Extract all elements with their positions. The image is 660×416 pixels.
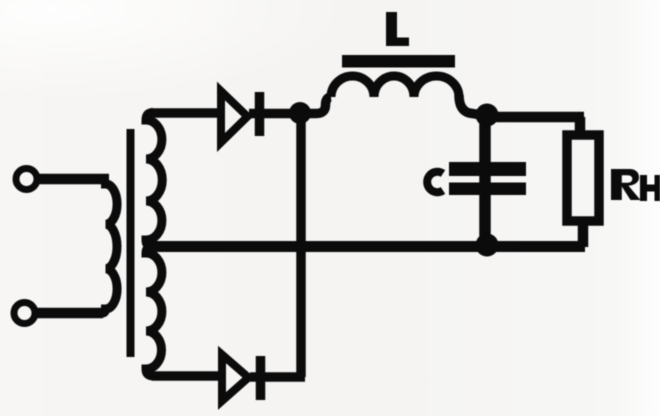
wire (578, 221, 589, 247)
wire (152, 371, 220, 381)
wire (487, 112, 584, 123)
label C (427, 172, 443, 192)
inductor core bar (342, 55, 455, 68)
wire (575, 117, 586, 134)
terminal T2 (bottom input) (14, 303, 35, 324)
diode VD1 (221, 91, 260, 143)
node A (junction of VD1, VD2, L) (289, 102, 311, 124)
transformer secondary winding lower half (146, 247, 162, 377)
wire (249, 109, 302, 119)
transformer core (127, 129, 135, 357)
wire (34, 308, 103, 319)
wire (250, 372, 305, 382)
node C (junction of C, rail) (476, 234, 499, 257)
inductor L (331, 76, 459, 97)
bottom rail wire (center-tap return) (147, 241, 585, 252)
wire (36, 174, 109, 185)
wire (vertical connector VD2 output to node A, crosses rail without junction) (296, 113, 306, 377)
label Rn (611, 169, 660, 201)
wire (150, 108, 219, 118)
wire (298, 97, 331, 114)
transformer primary winding (102, 180, 117, 314)
diode VD2 (222, 355, 261, 402)
terminal T1 (top input) (16, 169, 37, 190)
transformer secondary winding upper half (146, 113, 162, 247)
capacitor C (449, 115, 526, 245)
wire (459, 95, 482, 115)
resistor Rn (567, 135, 599, 221)
node B (junction of L, C, Rn) (476, 104, 499, 127)
label L (386, 12, 409, 46)
